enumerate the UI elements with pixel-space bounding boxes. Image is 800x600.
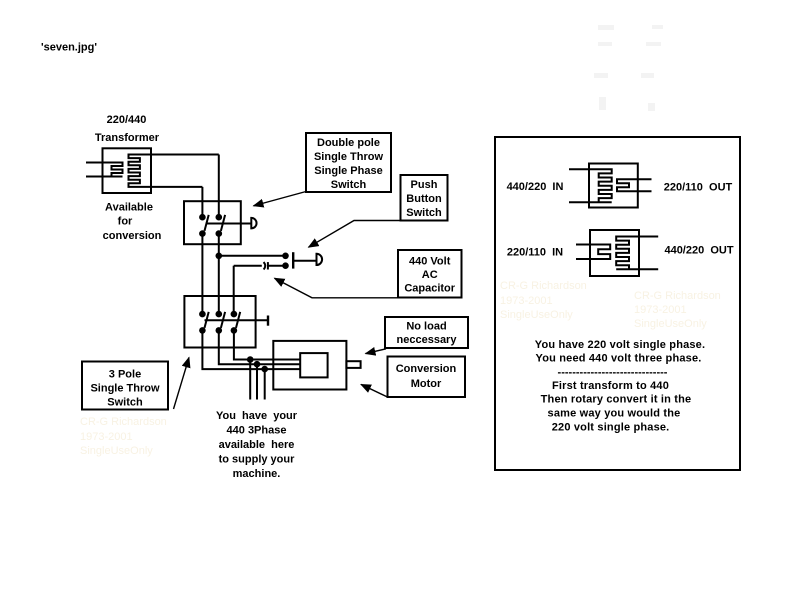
svg-text:------------------------------: ------------------------------ (558, 366, 668, 378)
svg-text:Conversion: Conversion (396, 363, 457, 375)
svg-text:available here: available here (219, 439, 295, 451)
svg-text:for: for (118, 216, 133, 228)
svg-text:conversion: conversion (103, 230, 162, 242)
svg-text:Transformer: Transformer (95, 132, 160, 144)
svg-text:You have 220 volt single phase: You have 220 volt single phase. (535, 339, 705, 351)
svg-text:440/220 OUT: 440/220 OUT (664, 245, 733, 257)
svg-text:220/110 OUT: 220/110 OUT (664, 182, 733, 194)
svg-text:Push: Push (411, 179, 438, 191)
svg-text:Then rotary convert it in the: Then rotary convert it in the (541, 394, 692, 406)
svg-text:220/440: 220/440 (107, 114, 147, 126)
svg-text:440 3Phase: 440 3Phase (227, 425, 287, 437)
svg-text:Capacitor: Capacitor (404, 283, 455, 295)
svg-text:CR-G Richardson: CR-G Richardson (80, 416, 167, 428)
svg-text:Switch: Switch (331, 179, 367, 191)
svg-text:440/220 IN: 440/220 IN (507, 181, 564, 193)
svg-text:Switch: Switch (406, 207, 442, 219)
svg-text:Single Phase: Single Phase (314, 165, 382, 177)
svg-text:SingleUseOnly: SingleUseOnly (500, 309, 573, 321)
svg-text:neccessary: neccessary (397, 334, 458, 346)
svg-text:You have your: You have your (216, 410, 298, 422)
svg-text:220 volt single phase.: 220 volt single phase. (552, 421, 670, 433)
svg-text:You need 440 volt three phase.: You need 440 volt three phase. (536, 353, 702, 365)
svg-text:Motor: Motor (411, 378, 442, 390)
svg-text:220/110 IN: 220/110 IN (507, 247, 563, 259)
svg-text:Single Throw: Single Throw (314, 151, 384, 163)
svg-text:3 Pole: 3 Pole (109, 369, 141, 381)
svg-text:No load: No load (406, 321, 446, 333)
svg-text:to supply your: to supply your (219, 454, 296, 466)
svg-text:Button: Button (406, 193, 442, 205)
svg-text:1973-2001: 1973-2001 (500, 295, 553, 307)
svg-text:CR-G Richardson: CR-G Richardson (634, 290, 721, 302)
svg-text:CR-G Richardson: CR-G Richardson (500, 280, 587, 292)
svg-text:Single Throw: Single Throw (90, 383, 160, 395)
svg-text:machine.: machine. (233, 468, 281, 480)
svg-text:SingleUseOnly: SingleUseOnly (80, 445, 153, 457)
svg-text:440 Volt: 440 Volt (409, 256, 451, 268)
svg-text:1973-2001: 1973-2001 (80, 431, 133, 443)
svg-text:same way you would the: same way you would the (548, 407, 681, 419)
svg-text:First transform to 440: First transform to 440 (552, 380, 669, 392)
svg-text:SingleUseOnly: SingleUseOnly (634, 318, 707, 330)
svg-text:Available: Available (105, 202, 153, 214)
svg-text:AC: AC (422, 269, 438, 281)
svg-text:Double pole: Double pole (317, 137, 380, 149)
svg-text:1973-2001: 1973-2001 (634, 304, 687, 316)
svg-text:'seven.jpg': 'seven.jpg' (41, 42, 97, 54)
svg-text:Switch: Switch (107, 397, 143, 409)
